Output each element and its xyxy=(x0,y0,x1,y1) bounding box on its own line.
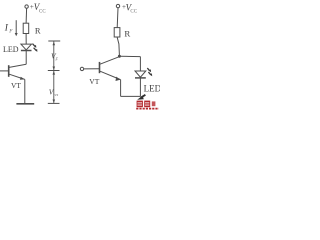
resistor R2 xyxy=(114,28,120,37)
svg-text:VT: VT xyxy=(89,77,99,86)
terminal base right xyxy=(80,67,83,70)
wire LED to collector left xyxy=(25,51,27,65)
svg-text:+VCC: +VCC xyxy=(30,2,46,14)
dimension arrow Vces xyxy=(53,71,56,103)
dimension arrow VF xyxy=(53,42,56,71)
terminal +VCC left xyxy=(25,5,28,8)
dimension tick middle xyxy=(48,70,60,72)
watermark char 1 xyxy=(137,101,143,108)
LED D1 xyxy=(21,44,32,50)
svg-text:IF: IF xyxy=(4,24,14,35)
dimension tick top xyxy=(48,40,60,42)
watermark small mark xyxy=(152,101,156,106)
wire VCC to R right xyxy=(116,8,119,28)
ground arrow right xyxy=(137,95,145,100)
watermark bottom text row xyxy=(136,108,159,110)
svg-text:VT: VT xyxy=(11,81,21,90)
svg-text:VF: VF xyxy=(51,51,58,61)
ground rail left xyxy=(16,103,34,105)
svg-text:R: R xyxy=(35,25,41,35)
junction node dot xyxy=(118,55,121,58)
current arrow IF xyxy=(15,20,18,36)
svg-text:+VCC: +VCC xyxy=(122,2,138,14)
transistor VT2 xyxy=(84,57,141,97)
LED D2 xyxy=(135,71,146,78)
svg-text:R: R xyxy=(124,28,130,38)
wire VCC to R left xyxy=(25,8,28,23)
transistor VT1 xyxy=(0,64,26,103)
svg-text:LED: LED xyxy=(144,84,160,94)
terminal +VCC right xyxy=(116,4,119,7)
wire R to LED left xyxy=(25,33,27,44)
svg-text:LED: LED xyxy=(3,45,19,54)
watermark char 2 xyxy=(144,101,150,108)
LED D2 emission arrows xyxy=(147,68,152,76)
LED D1 emission arrows xyxy=(33,44,38,52)
wire corner down to LED right xyxy=(139,57,141,71)
resistor R1 xyxy=(23,23,29,33)
dimension tick bottom xyxy=(48,102,60,104)
wire LED cathode down right xyxy=(139,78,141,96)
wire node to corner xyxy=(119,55,140,57)
wire R to node right xyxy=(117,37,119,55)
